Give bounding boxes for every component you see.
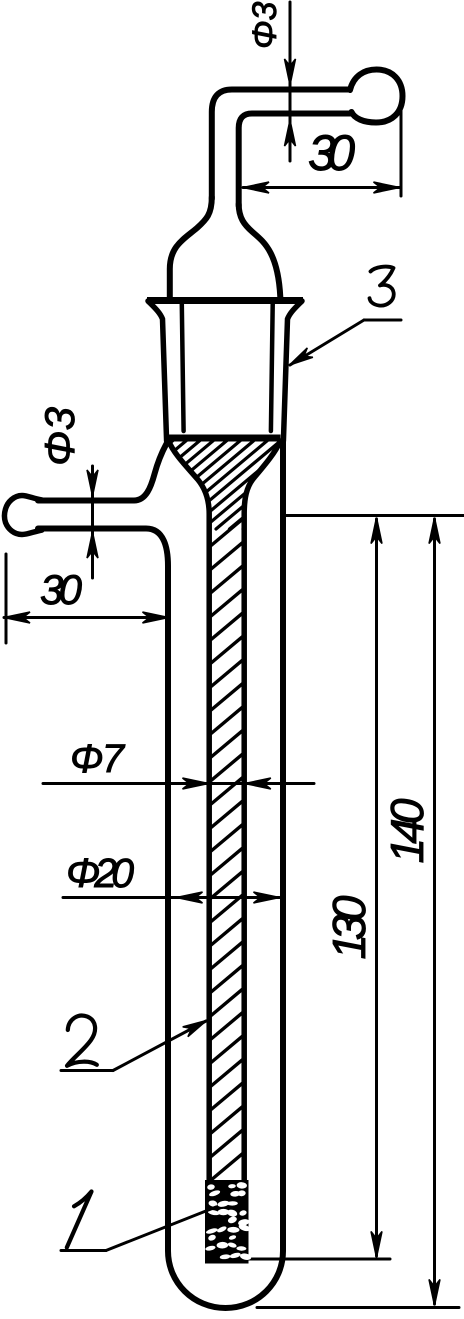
svg-text:30: 30 (308, 125, 355, 181)
svg-text:30: 30 (40, 566, 83, 613)
svg-text:Φ20: Φ20 (66, 850, 134, 896)
svg-text:140: 140 (381, 798, 433, 863)
svg-text:Φ3: Φ3 (246, 2, 284, 49)
svg-text:130: 130 (323, 895, 375, 959)
svg-text:Φ3: Φ3 (36, 407, 83, 466)
svg-text:Φ7: Φ7 (70, 737, 126, 781)
